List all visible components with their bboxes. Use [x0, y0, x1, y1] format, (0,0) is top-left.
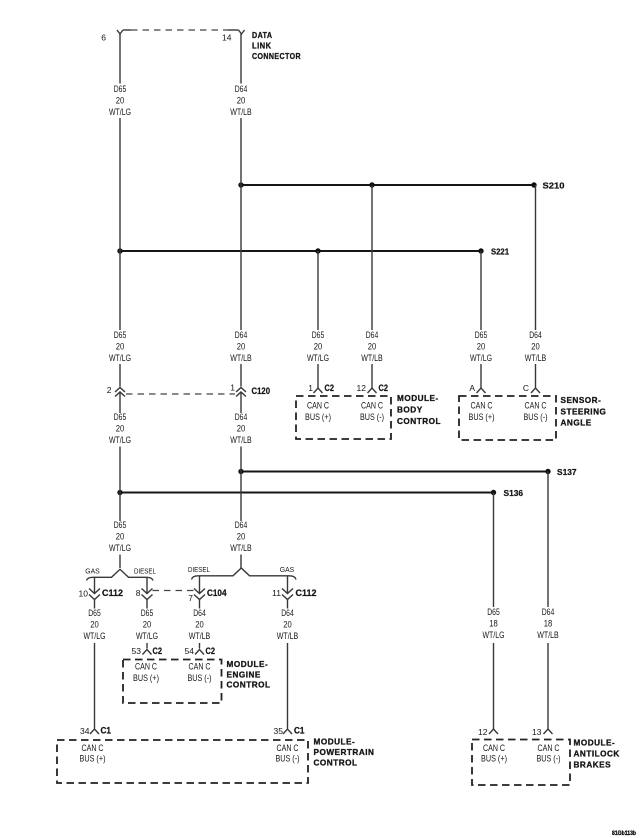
svg-text:WT/LB: WT/LB — [537, 630, 559, 641]
svg-text:D64: D64 — [281, 608, 294, 619]
svg-text:D65: D65 — [114, 520, 127, 531]
svg-text:WT/LG: WT/LG — [109, 353, 131, 364]
svg-text:D65: D65 — [475, 330, 488, 341]
svg-text:GAS: GAS — [85, 567, 100, 576]
svg-text:54: 54 — [185, 646, 195, 656]
svg-text:CAN C: CAN C — [525, 401, 547, 412]
svg-text:BUS (+): BUS (+) — [469, 412, 495, 423]
svg-text:BUS (-): BUS (-) — [276, 754, 300, 765]
svg-text:MODULE-: MODULE- — [227, 660, 269, 669]
svg-text:WT/LB: WT/LB — [189, 631, 211, 642]
svg-text:D65: D65 — [312, 330, 325, 341]
svg-text:WT/LB: WT/LB — [230, 353, 252, 364]
svg-text:CAN C: CAN C — [471, 401, 493, 412]
svg-text:12: 12 — [357, 383, 367, 393]
svg-text:20: 20 — [237, 96, 246, 107]
svg-text:BUS (+): BUS (+) — [133, 673, 159, 684]
svg-text:WT/LG: WT/LG — [307, 353, 329, 364]
svg-text:BUS (-): BUS (-) — [537, 754, 561, 765]
svg-text:DIESEL: DIESEL — [134, 567, 156, 576]
svg-text:BRAKES: BRAKES — [574, 761, 612, 770]
svg-text:C112: C112 — [102, 588, 123, 598]
svg-text:POWERTRAIN: POWERTRAIN — [314, 748, 375, 757]
svg-text:20: 20 — [314, 342, 323, 353]
svg-text:ANGLE: ANGLE — [561, 419, 592, 428]
svg-text:WT/LG: WT/LG — [136, 631, 158, 642]
svg-text:WT/LG: WT/LG — [109, 435, 131, 446]
svg-text:CAN C: CAN C — [483, 743, 505, 754]
svg-text:C1: C1 — [294, 726, 305, 736]
svg-text:WT/LG: WT/LG — [109, 107, 131, 118]
svg-text:DATA: DATA — [252, 31, 273, 40]
svg-text:S221: S221 — [491, 247, 509, 257]
svg-text:MODULE-: MODULE- — [314, 738, 356, 747]
svg-text:WT/LB: WT/LB — [230, 107, 252, 118]
svg-text:BUS (-): BUS (-) — [360, 412, 384, 423]
svg-text:CAN C: CAN C — [538, 743, 560, 754]
svg-text:ENGINE: ENGINE — [227, 670, 261, 679]
svg-text:CAN C: CAN C — [361, 401, 383, 412]
svg-text:6: 6 — [101, 33, 106, 43]
svg-text:CONTROL: CONTROL — [227, 681, 271, 690]
svg-text:LINK: LINK — [252, 42, 272, 51]
svg-text:WT/LG: WT/LG — [470, 353, 492, 364]
svg-text:20: 20 — [237, 532, 246, 543]
svg-text:BUS (+): BUS (+) — [481, 754, 507, 765]
svg-text:D65: D65 — [114, 412, 127, 423]
svg-text:C2: C2 — [379, 383, 389, 393]
svg-text:D65: D65 — [114, 330, 127, 341]
svg-text:D65: D65 — [487, 607, 500, 618]
svg-text:D65: D65 — [141, 608, 154, 619]
svg-text:18: 18 — [489, 619, 498, 630]
svg-text:C120: C120 — [252, 386, 271, 396]
svg-text:S136: S136 — [504, 488, 524, 498]
svg-text:20: 20 — [116, 342, 125, 353]
svg-text:D64: D64 — [193, 608, 206, 619]
svg-text:C104: C104 — [207, 588, 227, 598]
svg-text:BUS (+): BUS (+) — [305, 412, 331, 423]
svg-text:D65: D65 — [114, 84, 127, 95]
svg-text:20: 20 — [237, 424, 246, 435]
svg-text:D65: D65 — [88, 608, 101, 619]
svg-text:D64: D64 — [235, 412, 248, 423]
svg-text:D64: D64 — [235, 330, 248, 341]
svg-text:CONTROL: CONTROL — [397, 417, 441, 426]
svg-text:C: C — [523, 383, 529, 393]
svg-text:MODULE-: MODULE- — [574, 739, 616, 748]
svg-text:MODULE-: MODULE- — [397, 394, 439, 403]
svg-text:D64: D64 — [542, 607, 555, 618]
svg-text:C2: C2 — [206, 646, 216, 656]
svg-text:53: 53 — [132, 646, 142, 656]
svg-text:D64: D64 — [235, 84, 248, 95]
svg-text:D64: D64 — [529, 330, 542, 341]
svg-text:S137: S137 — [557, 467, 577, 477]
svg-text:DIESEL: DIESEL — [188, 565, 210, 574]
svg-text:WT/LB: WT/LB — [230, 435, 252, 446]
svg-text:S210: S210 — [543, 181, 565, 191]
svg-text:C112: C112 — [296, 588, 317, 598]
svg-text:CONTROL: CONTROL — [314, 759, 358, 768]
svg-text:BUS (-): BUS (-) — [188, 673, 212, 684]
svg-text:BUS (-): BUS (-) — [524, 412, 548, 423]
svg-text:CAN C: CAN C — [82, 743, 104, 754]
svg-text:BODY: BODY — [397, 406, 423, 415]
svg-text:CAN C: CAN C — [277, 743, 299, 754]
svg-text:ANTILOCK: ANTILOCK — [574, 750, 620, 759]
svg-text:CONNECTOR: CONNECTOR — [252, 52, 301, 61]
svg-text:12: 12 — [478, 727, 488, 737]
svg-text:20: 20 — [368, 342, 377, 353]
svg-text:CAN C: CAN C — [307, 401, 329, 412]
svg-text:11: 11 — [272, 588, 281, 598]
svg-text:20: 20 — [237, 342, 246, 353]
svg-text:D64: D64 — [235, 520, 248, 531]
svg-text:SENSOR-: SENSOR- — [561, 396, 602, 405]
svg-text:7: 7 — [188, 593, 193, 603]
svg-text:14: 14 — [222, 33, 232, 43]
svg-text:20: 20 — [116, 532, 125, 543]
svg-text:BUS (+): BUS (+) — [80, 754, 106, 765]
svg-text:WT/LG: WT/LG — [84, 631, 106, 642]
svg-text:8: 8 — [136, 588, 141, 598]
svg-text:20: 20 — [531, 342, 540, 353]
svg-text:WT/LB: WT/LB — [361, 353, 383, 364]
svg-text:WT/LB: WT/LB — [277, 631, 299, 642]
svg-text:WT/LB: WT/LB — [525, 353, 547, 364]
svg-text:20: 20 — [477, 342, 486, 353]
svg-text:20: 20 — [116, 96, 125, 107]
svg-text:WT/LB: WT/LB — [230, 543, 252, 554]
svg-text:GAS: GAS — [280, 565, 295, 574]
svg-text:C2: C2 — [153, 646, 163, 656]
svg-text:20: 20 — [143, 620, 152, 631]
svg-text:1: 1 — [308, 383, 313, 393]
svg-text:34: 34 — [80, 726, 90, 736]
svg-text:CAN C: CAN C — [189, 662, 211, 673]
svg-text:81Gb113b: 81Gb113b — [612, 830, 636, 837]
svg-text:13: 13 — [532, 727, 542, 737]
svg-text:20: 20 — [283, 620, 292, 631]
svg-text:20: 20 — [195, 620, 204, 631]
svg-text:18: 18 — [544, 619, 553, 630]
svg-text:C1: C1 — [101, 726, 112, 736]
svg-text:35: 35 — [274, 726, 284, 736]
svg-text:CAN C: CAN C — [135, 662, 157, 673]
svg-text:WT/LG: WT/LG — [483, 630, 505, 641]
svg-text:1: 1 — [230, 383, 235, 393]
svg-text:A: A — [469, 383, 475, 393]
svg-text:10: 10 — [79, 589, 89, 599]
svg-text:C2: C2 — [325, 383, 335, 393]
svg-text:20: 20 — [116, 424, 125, 435]
svg-text:STEERING: STEERING — [561, 407, 607, 416]
svg-text:D64: D64 — [366, 330, 379, 341]
svg-text:2: 2 — [107, 385, 112, 395]
svg-text:20: 20 — [90, 620, 99, 631]
svg-text:WT/LG: WT/LG — [109, 543, 131, 554]
